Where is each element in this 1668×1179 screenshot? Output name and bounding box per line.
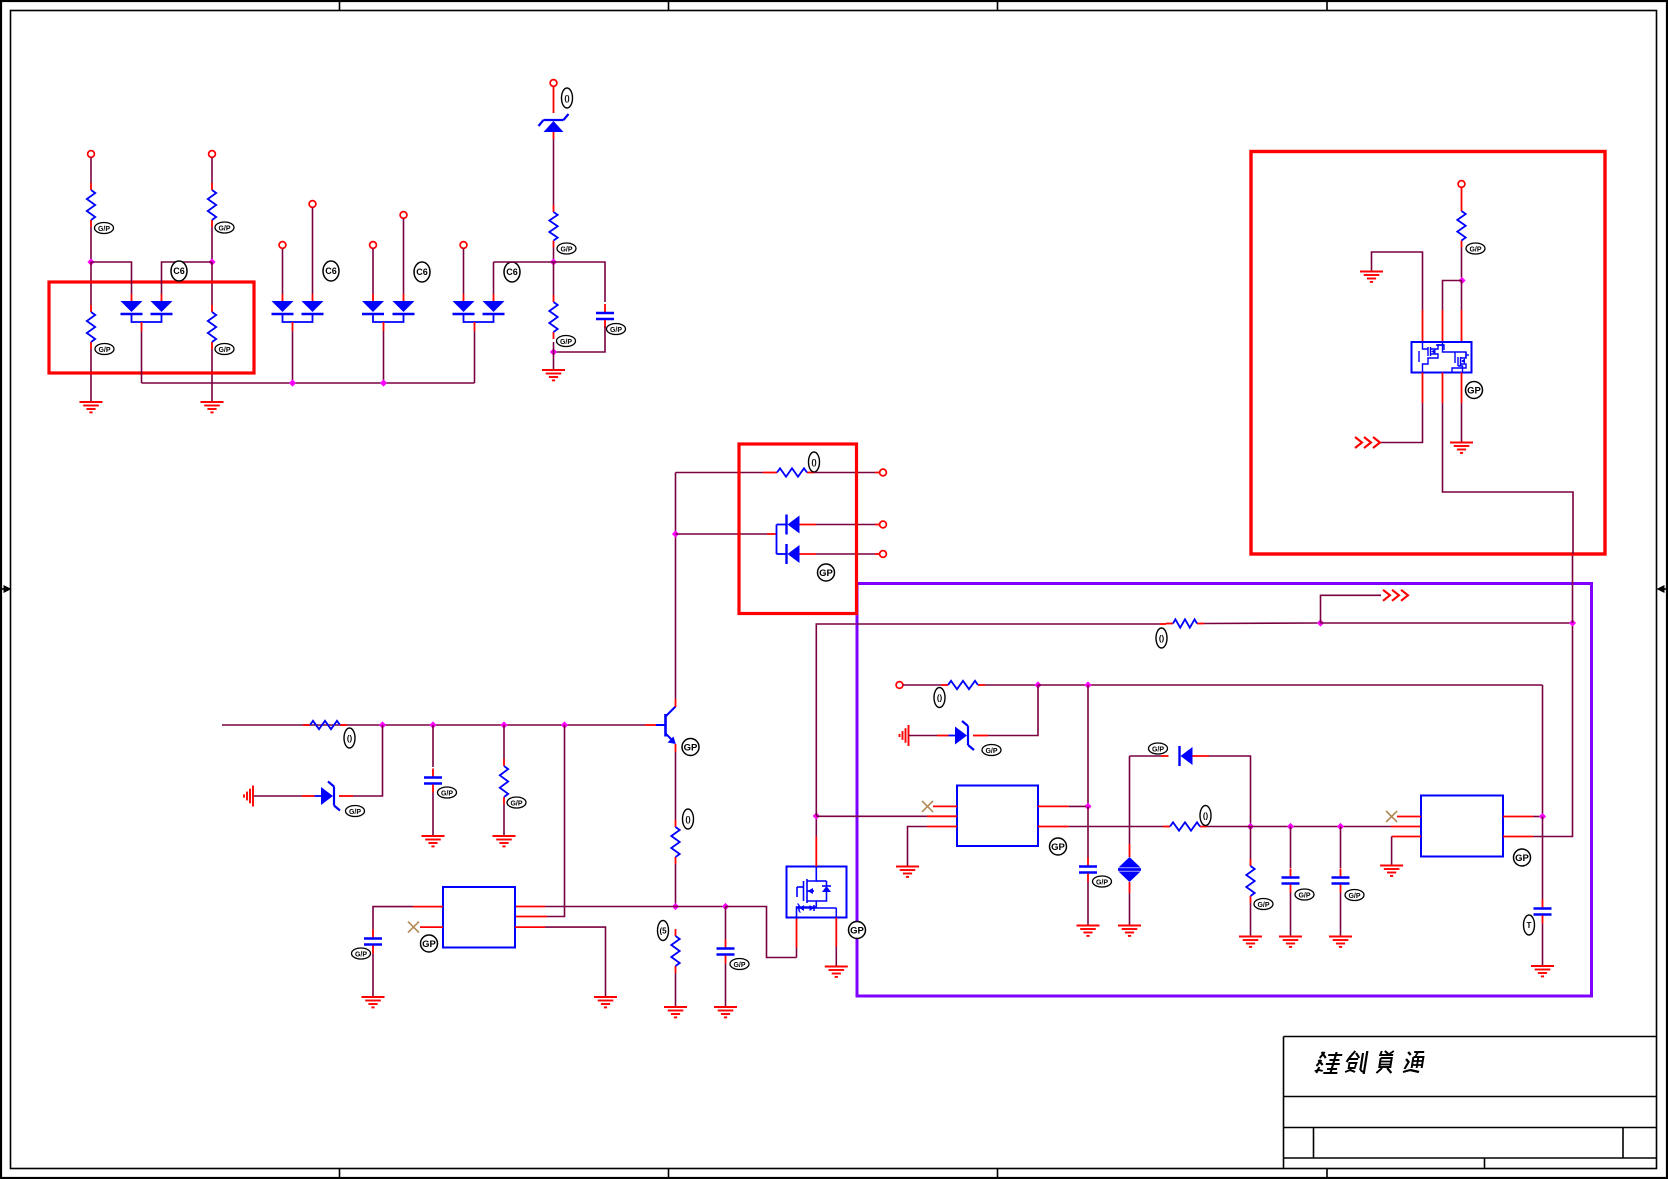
wire — [553, 132, 555, 205]
svg-text:C6: C6 — [416, 267, 428, 277]
wire pin — [1392, 837, 1421, 866]
ground — [1118, 926, 1141, 936]
wire pin — [1038, 805, 1086, 807]
label C3 — [730, 959, 749, 970]
svg-text:T: T — [1527, 921, 1532, 930]
svg-text:(): () — [811, 458, 817, 467]
svg-text:G/P: G/P — [355, 951, 367, 958]
capacitor C5 — [1282, 869, 1300, 893]
wire — [554, 262, 606, 302]
wire — [903, 684, 941, 686]
terminal P8 — [550, 80, 557, 87]
junction — [561, 721, 568, 728]
wire — [1087, 882, 1089, 926]
label C1 — [607, 324, 626, 335]
dual diode D4 — [453, 301, 505, 322]
wire — [1340, 827, 1342, 869]
resistor R11 — [770, 468, 814, 476]
wire — [90, 158, 92, 184]
svg-text:(): () — [937, 694, 943, 703]
wire — [90, 262, 92, 402]
junction — [289, 379, 296, 386]
capacitor C6 — [1332, 869, 1350, 893]
terminal P12 — [896, 682, 903, 689]
wire — [554, 327, 606, 353]
wire — [1443, 373, 1574, 555]
terminal P10 — [880, 521, 887, 528]
terminal P4 — [309, 201, 316, 208]
svg-text:GP: GP — [684, 742, 698, 753]
wire — [835, 918, 837, 967]
junction — [550, 348, 557, 355]
off-page connector — [1355, 437, 1380, 448]
resistor R12 — [1166, 619, 1204, 627]
svg-text:C6: C6 — [325, 266, 337, 276]
wire — [909, 735, 949, 737]
no-connect pin — [922, 801, 957, 812]
wire — [726, 907, 797, 958]
junction — [500, 721, 507, 728]
border zone tick marks — [340, 1, 1328, 1178]
label U3 — [1514, 849, 1531, 866]
wire to U1 top — [815, 816, 817, 867]
svg-text:C6: C6 — [173, 266, 185, 276]
wire pin — [816, 815, 957, 817]
wire — [211, 262, 213, 402]
svg-text:(): () — [347, 734, 353, 743]
wire emitter — [675, 744, 677, 820]
junction node E — [672, 903, 679, 910]
ground — [1239, 937, 1262, 947]
IC U3 — [1421, 796, 1503, 857]
wire — [553, 87, 555, 114]
wire — [292, 322, 294, 383]
wire — [1461, 281, 1463, 343]
wire — [1321, 622, 1570, 624]
svg-text:G/P: G/P — [349, 809, 361, 816]
label R15 — [1466, 243, 1485, 254]
label U2 — [1050, 838, 1067, 855]
resistor R16 — [1163, 822, 1207, 830]
wire — [800, 524, 880, 526]
wire — [1461, 373, 1463, 443]
TVS diode D9 — [1118, 857, 1141, 882]
wire pin — [1038, 826, 1163, 828]
svg-text:GP: GP — [819, 568, 833, 579]
svg-text:(): () — [1203, 812, 1209, 821]
wire — [515, 906, 676, 908]
label U1 — [849, 922, 866, 939]
svg-text:G/P: G/P — [218, 225, 230, 232]
label R4 — [215, 344, 234, 355]
wire — [1129, 756, 1131, 857]
label D2 — [323, 261, 339, 281]
wire — [675, 864, 677, 904]
junction — [672, 530, 679, 537]
label Q1 — [682, 739, 699, 756]
label D4 — [504, 262, 520, 282]
label R12 — [1156, 628, 1167, 648]
svg-text:GP: GP — [1515, 853, 1529, 864]
wire — [90, 227, 92, 259]
label R10 — [658, 921, 669, 941]
terminal P7 — [460, 242, 467, 249]
wire — [676, 472, 771, 474]
label R16 — [1200, 806, 1211, 826]
wire — [1572, 554, 1574, 623]
wire base bus — [222, 724, 645, 726]
resistor R2 — [87, 305, 95, 349]
label U4 — [1466, 382, 1483, 399]
wire — [494, 261, 554, 263]
wire — [91, 262, 132, 301]
junction — [1287, 823, 1294, 830]
label R2 — [95, 344, 114, 355]
IC U5 — [443, 887, 515, 948]
ground (left) — [244, 786, 253, 807]
ground — [362, 997, 385, 1007]
wire — [1340, 893, 1342, 937]
svg-text:GP: GP — [1467, 385, 1481, 396]
resistor R14 — [1246, 859, 1254, 903]
svg-text:(): () — [1159, 634, 1165, 643]
svg-text:C6: C6 — [506, 267, 518, 277]
label R5 — [557, 243, 576, 254]
border left arrow — [1, 585, 12, 593]
highlight box (violet) — [857, 584, 1592, 997]
capacitor C3 — [717, 940, 735, 964]
wire — [162, 262, 213, 301]
wire — [1130, 755, 1169, 757]
wire — [857, 623, 1167, 625]
no-connect pin — [1386, 811, 1421, 822]
junction — [429, 721, 436, 728]
label D7 — [818, 564, 835, 581]
svg-text:G/P: G/P — [510, 800, 522, 807]
label C6 — [1345, 890, 1364, 901]
label R7 — [344, 728, 355, 748]
ground — [664, 1007, 687, 1017]
terminal P5 — [370, 242, 377, 249]
wire — [1461, 248, 1463, 278]
wire — [1290, 893, 1292, 937]
capacitor C4 — [1079, 858, 1097, 882]
wire — [1542, 817, 1544, 900]
highlight box (red) top-right — [1251, 152, 1605, 555]
zener diode D8 — [949, 721, 975, 750]
wire — [676, 533, 777, 535]
junction node F — [813, 812, 820, 819]
highlight box (red) around divider and D1 — [49, 282, 254, 373]
junction node A — [87, 258, 94, 265]
wire — [1087, 806, 1089, 858]
junction — [1084, 803, 1091, 810]
wire — [463, 249, 465, 302]
wire — [493, 262, 495, 301]
wire — [1372, 252, 1423, 342]
ground (left) — [900, 725, 909, 746]
label U5 — [421, 935, 438, 952]
ground — [1531, 966, 1554, 976]
wire — [1380, 373, 1423, 443]
ground — [1279, 937, 1302, 947]
title text (company name) — [1314, 1051, 1424, 1074]
wire — [973, 685, 1038, 736]
ground — [542, 370, 565, 380]
wire — [312, 208, 314, 302]
capacitor C1 — [596, 304, 614, 328]
ground — [201, 402, 224, 412]
junction — [722, 903, 729, 910]
wire — [282, 249, 284, 302]
wire — [1087, 685, 1089, 806]
svg-text:(5: (5 — [659, 927, 667, 936]
ground — [1450, 443, 1473, 453]
svg-text:G/P: G/P — [560, 246, 572, 253]
svg-text:G/P: G/P — [733, 962, 745, 969]
label C8 — [352, 948, 371, 959]
ground — [594, 997, 617, 1007]
wire — [676, 906, 723, 908]
resistor R3 — [208, 183, 216, 227]
resistor R15 — [1457, 204, 1465, 248]
ground — [1380, 866, 1403, 876]
wire — [339, 725, 383, 796]
wire — [553, 342, 555, 370]
ground — [493, 836, 516, 846]
resistor R5 — [549, 205, 557, 248]
wire — [645, 724, 666, 726]
ground — [825, 967, 848, 977]
wire — [432, 793, 434, 837]
wire — [1290, 827, 1292, 869]
dual diode D1 — [121, 301, 173, 322]
wire — [474, 322, 476, 383]
svg-text:(): () — [685, 815, 691, 824]
terminal P2 — [209, 151, 216, 158]
dual MOSFET U4 — [1412, 342, 1472, 373]
wire — [675, 973, 677, 1007]
wire — [211, 158, 213, 184]
label R11 — [809, 452, 820, 472]
terminal P3 — [279, 242, 286, 249]
ground — [714, 1007, 737, 1017]
dual diode D3 — [362, 301, 415, 322]
wire — [1207, 826, 1421, 828]
wire — [372, 954, 374, 998]
wire — [211, 227, 213, 259]
title block — [1284, 1037, 1657, 1169]
label R6 — [557, 336, 576, 347]
resistor R6 — [549, 295, 557, 339]
zener diode D5 — [539, 114, 569, 132]
svg-text:G/P: G/P — [1298, 892, 1310, 899]
transistor Q1 — [666, 707, 676, 745]
svg-text:G/P: G/P — [1257, 902, 1269, 909]
wire — [515, 725, 565, 917]
wire — [816, 624, 856, 816]
wire — [1443, 281, 1463, 343]
wire — [553, 262, 555, 295]
svg-text:G/P: G/P — [985, 748, 997, 755]
terminal P13 — [1458, 181, 1465, 188]
wire — [372, 249, 374, 302]
wire — [1542, 924, 1544, 967]
ground — [1360, 272, 1383, 282]
wire — [1193, 756, 1251, 824]
resistor R1 — [87, 183, 95, 227]
label C7 — [1524, 915, 1535, 935]
resistor R7 — [303, 721, 347, 729]
wire pin — [1503, 626, 1573, 837]
svg-text:G/P: G/P — [1152, 746, 1164, 753]
svg-text:G/P: G/P — [560, 339, 572, 346]
junction — [379, 721, 386, 728]
wire — [553, 248, 555, 260]
wire — [1129, 882, 1131, 926]
diode pair D7 — [777, 515, 800, 565]
terminal P11 — [880, 551, 887, 558]
svg-text:G/P: G/P — [98, 226, 110, 233]
wire — [503, 725, 505, 836]
label D10 — [1149, 743, 1168, 754]
ground — [1329, 937, 1352, 947]
dual MOSFET U1 — [787, 867, 847, 918]
ground — [80, 402, 103, 412]
svg-text:G/P: G/P — [98, 347, 110, 354]
ground — [896, 867, 919, 877]
label D3 — [414, 262, 430, 282]
border right arrow — [1657, 585, 1668, 593]
label R8 — [507, 797, 526, 808]
wire — [725, 907, 727, 1008]
wire pin — [373, 907, 443, 930]
junction node C — [550, 258, 557, 265]
junction — [380, 379, 387, 386]
wire — [432, 725, 434, 767]
wire — [383, 322, 385, 383]
wire — [253, 795, 321, 797]
highlight box (red) around D7 — [739, 444, 857, 614]
resistor R8 — [500, 759, 508, 804]
IC U2 — [957, 786, 1038, 847]
wire pin — [515, 927, 606, 997]
resistor R10 — [671, 929, 679, 973]
junction node G — [1569, 619, 1576, 626]
wire — [1461, 188, 1463, 205]
label D1 — [171, 261, 187, 281]
wire — [1542, 685, 1544, 814]
svg-text:GP: GP — [422, 939, 436, 950]
label R13 — [934, 688, 945, 708]
junction — [1247, 823, 1254, 830]
svg-text:GP: GP — [850, 925, 864, 936]
label C5 — [1295, 889, 1314, 900]
svg-text:GP: GP — [1051, 842, 1065, 853]
wire pin — [1503, 816, 1540, 818]
svg-text:(): () — [564, 94, 570, 103]
svg-text:G/P: G/P — [1096, 879, 1108, 886]
resistor R4 — [208, 305, 216, 349]
resistor R9 — [671, 820, 679, 864]
svg-text:G/P: G/P — [610, 327, 622, 334]
wire — [403, 219, 405, 302]
label R3 — [215, 222, 234, 233]
svg-text:G/P: G/P — [218, 347, 230, 354]
terminal P1 — [88, 151, 95, 158]
wire — [1250, 827, 1252, 860]
junction node I — [1458, 277, 1465, 284]
junction node H — [1539, 813, 1546, 820]
dual diode D2 — [272, 301, 324, 322]
ground — [422, 836, 445, 846]
capacitor C2 — [424, 769, 442, 793]
junction — [1317, 619, 1324, 626]
junction — [1337, 823, 1344, 830]
resistor R13 — [941, 681, 985, 689]
wire — [1250, 903, 1252, 937]
wire — [814, 472, 880, 474]
label D6 — [346, 806, 365, 817]
wire — [1204, 622, 1318, 625]
wire cathode bus — [142, 382, 475, 384]
label R1 — [95, 223, 114, 234]
wire collector — [675, 473, 677, 708]
svg-text:G/P: G/P — [441, 790, 453, 797]
junction — [1084, 681, 1091, 688]
wire pin — [908, 827, 958, 867]
wire — [800, 553, 880, 555]
junction node B — [208, 258, 215, 265]
svg-text:G/P: G/P — [1348, 893, 1360, 900]
capacitor C7 — [1534, 900, 1552, 924]
wire — [985, 684, 1035, 686]
zener diode D6 — [321, 782, 340, 811]
label C4 — [1093, 876, 1112, 887]
terminal P9 — [880, 469, 887, 476]
terminal P6 — [400, 212, 407, 219]
label R9 — [683, 809, 694, 829]
junction — [1034, 681, 1041, 688]
label C2 — [438, 787, 457, 798]
wire — [1038, 684, 1543, 686]
wire — [141, 322, 143, 383]
capacitor C8 — [364, 930, 382, 954]
diode D10 — [1180, 746, 1193, 766]
label D5 — [562, 88, 573, 108]
svg-text:G/P: G/P — [1469, 246, 1481, 253]
label R14 — [1254, 899, 1273, 910]
label D8 — [982, 745, 1001, 756]
ground — [1077, 926, 1100, 936]
off-page connector — [1321, 590, 1409, 623]
no-connect pin — [408, 922, 443, 933]
